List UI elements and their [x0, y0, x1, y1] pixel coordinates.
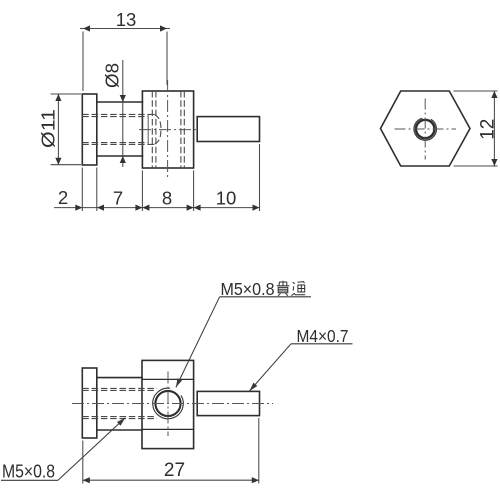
svg-text:13: 13 [116, 9, 137, 30]
cross hole thread major arc [153, 388, 184, 419]
centerline of cross hole [167, 372, 169, 437]
stud outline [197, 391, 259, 415]
leader M4x0.7 [249, 344, 352, 391]
leader M5x0.8 (axial tap) [1, 418, 125, 481]
thread end line [147, 115, 149, 144]
arrows of 2 [75, 205, 82, 211]
cross hole hidden lines [151, 91, 153, 168]
flange outline [82, 368, 97, 438]
cylinder body outline [97, 378, 142, 430]
tapped hole inner circle [416, 120, 434, 138]
bore hidden lines (tapped hole) [82, 91, 184, 168]
centerlines of hole [395, 128, 457, 130]
arrows of 7 [97, 205, 104, 211]
bottom dimension chain extension lines [54, 144, 260, 211]
bore hidden lines [82, 388, 157, 418]
svg-text:M5×0.8: M5×0.8 [2, 462, 55, 482]
svg-text:12: 12 [478, 119, 499, 140]
svg-text:M4×0.7: M4×0.7 [297, 326, 349, 346]
thread major arc [414, 118, 436, 140]
arrows of 10 [194, 205, 201, 211]
kanji 通 [292, 282, 306, 296]
dimension 12 [454, 91, 498, 166]
dimension line 2 (tail) [54, 207, 97, 209]
svg-text:10: 10 [216, 188, 237, 209]
drill end / intersection outline [154, 114, 161, 144]
arrows of 8 [142, 205, 149, 211]
centerline cross-hole vertical [167, 80, 169, 177]
hex body outline [142, 360, 194, 448]
flange outline [82, 94, 97, 165]
svg-text:7: 7 [113, 188, 123, 209]
kanji 貫 [277, 281, 290, 296]
centerline horizontal (hex area) [139, 129, 199, 131]
hex flat edges [142, 379, 194, 429]
svg-text:8: 8 [162, 188, 172, 209]
dimension diameter 8 [122, 60, 124, 167]
hexagon outline [381, 91, 471, 166]
stud outline [197, 117, 259, 142]
dimension line 10 [194, 207, 260, 209]
dimension 13 [80, 29, 170, 92]
svg-text:Ø8: Ø8 [102, 63, 123, 88]
dimension line 7 [97, 207, 142, 209]
cylinder body outline [97, 102, 143, 156]
hex body outline [142, 91, 193, 168]
leader M5x0.8 through [176, 297, 311, 388]
svg-text:M5×0.8: M5×0.8 [221, 279, 275, 299]
svg-text:Ø11: Ø11 [38, 109, 59, 148]
svg-text:2: 2 [58, 187, 68, 208]
svg-text:27: 27 [164, 460, 185, 481]
dimension diameter 11 [51, 94, 82, 165]
centerline horizontal [72, 403, 273, 405]
cross tapped hole circle [155, 391, 180, 416]
dimension line 8 [142, 207, 193, 209]
dimension 27 [83, 418, 259, 484]
